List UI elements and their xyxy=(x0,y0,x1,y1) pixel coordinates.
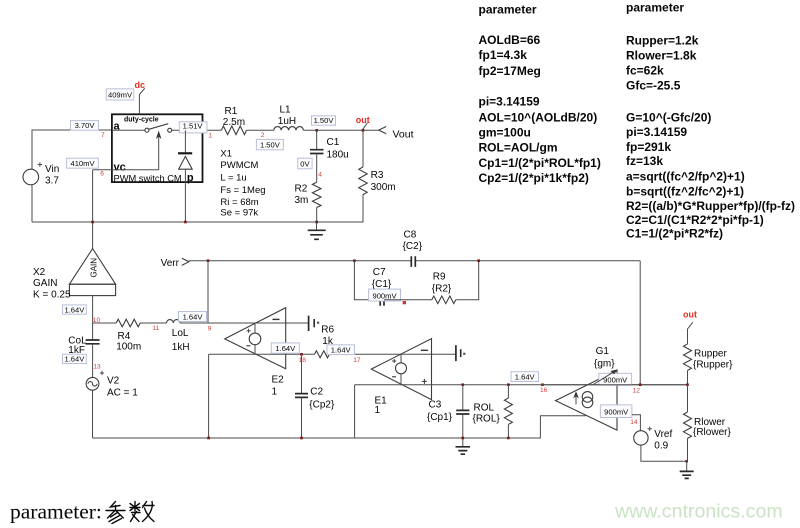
svg-text:AOLdB=66: AOLdB=66 xyxy=(479,33,541,47)
resistor ROL xyxy=(473,385,513,438)
capacitor C8 xyxy=(403,230,423,267)
ground below C3 xyxy=(456,438,471,454)
svg-text:fz=13k: fz=13k xyxy=(626,154,663,168)
svg-text:{Rupper}: {Rupper} xyxy=(693,360,733,371)
svg-text:G=10^(-Gfc/20): G=10^(-Gfc/20) xyxy=(626,111,711,125)
svg-text:pi=3.14159: pi=3.14159 xyxy=(479,95,540,109)
svg-text:Cp2=1/(2*pi*1k*fp2): Cp2=1/(2*pi*1k*fp2) xyxy=(479,171,589,185)
transconductance amp G1 xyxy=(556,346,618,430)
output pin Vout xyxy=(379,127,414,141)
svg-text:900mV: 900mV xyxy=(372,291,397,300)
svg-text:E2: E2 xyxy=(272,375,285,386)
wire node10 to R4 xyxy=(93,322,117,324)
svg-text:AC = 1: AC = 1 xyxy=(107,387,138,398)
svg-text:vc: vc xyxy=(114,161,126,173)
resistor R6 xyxy=(315,325,335,358)
switch duty-cycle xyxy=(112,124,172,170)
voltage label 900mV C7 xyxy=(369,289,401,301)
junction p rail xyxy=(184,221,187,224)
parameter column 1 xyxy=(479,3,601,186)
svg-text:R2: R2 xyxy=(295,183,308,194)
reference bar E2 xyxy=(309,316,320,331)
capacitor C7 xyxy=(372,267,392,306)
wire R6 to E1 xyxy=(329,353,456,355)
svg-text:R9: R9 xyxy=(433,272,446,283)
svg-text:3.7: 3.7 xyxy=(45,176,59,187)
svg-text:PWM switch CM: PWM switch CM xyxy=(114,173,182,183)
svg-text:1.51V: 1.51V xyxy=(183,122,204,131)
svg-text:{Rlower}: {Rlower} xyxy=(693,427,731,438)
svg-text:LoL: LoL xyxy=(172,328,189,339)
resistor R9 xyxy=(432,272,456,304)
svg-text:R3: R3 xyxy=(371,170,384,181)
svg-text:GAIN: GAIN xyxy=(90,258,99,278)
svg-text:G1: G1 xyxy=(596,346,610,357)
svg-text:1: 1 xyxy=(209,133,213,140)
svg-text:9: 9 xyxy=(208,325,212,332)
svg-text:Rlower: Rlower xyxy=(694,417,726,428)
svg-text:12: 12 xyxy=(633,387,641,394)
svg-text:parameter:: parameter: xyxy=(10,500,102,524)
svg-text:{R2}: {R2} xyxy=(432,284,452,295)
resistor Rupper xyxy=(684,329,734,385)
svg-text:C3: C3 xyxy=(429,400,442,411)
capacitor C1 xyxy=(310,130,349,182)
capacitor C3 xyxy=(427,385,469,438)
svg-text:C8: C8 xyxy=(404,230,417,241)
svg-text:parameter: parameter xyxy=(479,3,537,17)
svg-text:Cp1=1/(2*pi*ROL*fp1): Cp1=1/(2*pi*ROL*fp1) xyxy=(479,156,601,170)
wire dc xyxy=(138,94,140,114)
svg-text:C1: C1 xyxy=(327,137,340,148)
junction Vref ground xyxy=(685,460,688,463)
junction comp right xyxy=(477,259,480,262)
svg-text:Rlower=1.8k: Rlower=1.8k xyxy=(626,49,697,63)
svg-text:2: 2 xyxy=(261,132,265,139)
wire E1 output main line xyxy=(355,384,688,386)
svg-text:fp2=17Meg: fp2=17Meg xyxy=(479,64,541,78)
svg-text:pi=3.14159: pi=3.14159 xyxy=(626,125,687,139)
svg-text:3m: 3m xyxy=(295,195,309,206)
svg-text:4: 4 xyxy=(318,172,322,179)
capacitor C2 xyxy=(295,354,335,438)
voltage label 0V xyxy=(298,158,312,169)
wire L1 to Vout xyxy=(303,129,378,131)
svg-text:b=sqrt((fz^2/fc^2)+1): b=sqrt((fz^2/fc^2)+1) xyxy=(626,185,744,199)
svg-text:Vref: Vref xyxy=(654,429,672,440)
voltage label 3.70V xyxy=(71,121,99,131)
svg-text:{Cp1}: {Cp1} xyxy=(427,412,453,423)
svg-text:1.64V: 1.64V xyxy=(64,355,85,364)
wire vc xyxy=(93,169,112,171)
svg-text:Se = 97k: Se = 97k xyxy=(220,208,258,219)
svg-text:C2=C1/(C1*R2*2*pi*fp-1): C2=C1/(C1*R2*2*pi*fp-1) xyxy=(626,213,764,227)
wire R4 to LoL xyxy=(140,322,166,324)
svg-text:Vout: Vout xyxy=(393,128,414,140)
wire LoL to E2 input xyxy=(180,322,309,324)
wire main line over G1 xyxy=(541,384,688,386)
gm arrow xyxy=(593,370,617,385)
voltage label 1.64V node17 xyxy=(327,345,355,355)
voltage label 1.64V node9 xyxy=(179,312,207,322)
wire C7 to R9 xyxy=(384,299,432,301)
svg-text:ROL: ROL xyxy=(474,402,495,413)
voltage label 1.50V node2 xyxy=(256,139,283,149)
voltage label 410mV xyxy=(67,158,99,168)
svg-text:1.50V: 1.50V xyxy=(314,116,335,125)
voltage label 1.51V xyxy=(179,122,207,133)
svg-text:C2: C2 xyxy=(310,387,323,398)
svg-text:Fs = 1Meg: Fs = 1Meg xyxy=(220,185,265,196)
svg-text:L = 1u: L = 1u xyxy=(220,173,246,184)
wire Vref to ground junction xyxy=(641,445,687,461)
svg-text:17: 17 xyxy=(353,357,361,364)
svg-text:out: out xyxy=(683,309,697,319)
wire Vin top to rail xyxy=(32,130,112,169)
wire V2 to bottom rail xyxy=(92,390,94,438)
resistor R3 xyxy=(359,130,396,194)
capacitor CoL xyxy=(68,323,99,377)
svg-text:1.64V: 1.64V xyxy=(183,313,204,322)
svg-text:AOL=10^(AOLdB/20): AOL=10^(AOLdB/20) xyxy=(479,111,598,125)
svg-text:{ROL}: {ROL} xyxy=(473,413,501,424)
svg-text:{Cp2}: {Cp2} xyxy=(309,400,335,411)
svg-text:1.64V: 1.64V xyxy=(515,373,536,382)
svg-text:R1: R1 xyxy=(225,106,238,117)
svg-text:{C1}: {C1} xyxy=(372,279,392,290)
voltage source Vin xyxy=(23,162,59,186)
svg-text:p: p xyxy=(187,172,194,184)
voltage label 1.64V node16 xyxy=(511,372,539,382)
junction vc rail xyxy=(91,221,94,224)
junction Rupper Rlower xyxy=(686,383,689,386)
svg-text:R4: R4 xyxy=(118,331,131,342)
svg-text:C7: C7 xyxy=(373,267,386,278)
svg-text:fp1=4.3k: fp1=4.3k xyxy=(479,48,528,62)
svg-text:1.64V: 1.64V xyxy=(64,305,85,314)
junction C3 xyxy=(462,383,465,386)
svg-text:www.cntronics.com: www.cntronics.com xyxy=(614,501,783,523)
svg-text:11: 11 xyxy=(152,325,159,332)
wire Verr line down to node12 xyxy=(639,261,641,385)
svg-text:fp=291k: fp=291k xyxy=(626,140,671,154)
svg-text:1.50V: 1.50V xyxy=(260,140,281,149)
resistor Rlower xyxy=(684,385,732,462)
ground below rail xyxy=(308,222,326,239)
svg-text:900mV: 900mV xyxy=(604,408,629,417)
wire E2 output line xyxy=(209,353,315,355)
pin dc tick xyxy=(139,88,144,94)
svg-text:0.9: 0.9 xyxy=(654,441,668,452)
ground rail top half xyxy=(32,195,363,223)
junction Verr to node9 xyxy=(207,259,210,262)
svg-text:1uH: 1uH xyxy=(278,116,296,127)
wire R9 to corner up xyxy=(456,261,479,300)
voltage label 409mV xyxy=(106,89,134,100)
voltage label 1.50V C1 xyxy=(312,116,336,125)
svg-text:PWMCM: PWMCM xyxy=(220,160,258,171)
svg-text:2.5m: 2.5m xyxy=(223,117,245,128)
rail junctions xyxy=(207,437,210,440)
svg-text:X2: X2 xyxy=(33,267,46,278)
svg-text:0V: 0V xyxy=(300,159,310,168)
junction comp left xyxy=(353,259,356,262)
svg-text:L1: L1 xyxy=(280,105,292,116)
svg-text:ROL=AOL/gm: ROL=AOL/gm xyxy=(479,141,558,155)
svg-text:1.64V: 1.64V xyxy=(331,346,352,355)
caption chinese 参数 xyxy=(106,502,154,524)
svg-text:1: 1 xyxy=(375,405,381,416)
wire node 1 xyxy=(172,129,222,131)
junction diode top xyxy=(184,129,187,132)
svg-text:18: 18 xyxy=(299,357,307,364)
svg-text:Rupper: Rupper xyxy=(694,349,727,360)
svg-text:X1: X1 xyxy=(220,149,232,160)
reference bar E1 xyxy=(456,345,466,361)
input arrow Verr xyxy=(182,258,189,265)
svg-text:7: 7 xyxy=(101,132,105,139)
gain block X2 xyxy=(33,249,116,323)
wire vc vertical to gain xyxy=(92,170,94,249)
svg-text:Vin: Vin xyxy=(45,164,59,175)
junction R3 top xyxy=(362,129,365,132)
svg-text:900mV: 900mV xyxy=(603,376,628,385)
svg-text:GAIN: GAIN xyxy=(33,278,57,289)
pin out tick right xyxy=(688,322,693,329)
svg-text:C1=1/(2*pi*R2*fz): C1=1/(2*pi*R2*fz) xyxy=(626,227,723,241)
wire comp left branch xyxy=(354,261,380,300)
junction C1 top xyxy=(315,129,318,132)
junction ROL xyxy=(507,383,510,386)
wire R1 to L1 xyxy=(247,129,274,131)
pin out tick xyxy=(363,123,368,130)
ground rail bottom xyxy=(93,416,586,438)
svg-text:100m: 100m xyxy=(116,342,141,353)
voltage source V2 xyxy=(86,371,138,398)
wire Vin bottom xyxy=(31,185,33,222)
inductor LoL xyxy=(167,320,190,353)
svg-text:dc: dc xyxy=(135,80,146,90)
op-amp E2 xyxy=(225,308,286,398)
svg-text:R2=((a/b)*G*Rupper*fp)/(fp-fz): R2=((a/b)*G*Rupper*fp)/(fp-fz) xyxy=(626,199,795,213)
inductor L1 xyxy=(274,105,304,131)
svg-text:{C2}: {C2} xyxy=(403,241,423,252)
svg-text:409mV: 409mV xyxy=(108,90,133,99)
svg-text:a=sqrt((fc^2/fp^2)+1): a=sqrt((fc^2/fp^2)+1) xyxy=(626,170,745,184)
svg-text:1.64V: 1.64V xyxy=(275,344,296,353)
junction node16 xyxy=(541,383,544,386)
svg-text:V2: V2 xyxy=(107,376,120,387)
svg-text:{gm}: {gm} xyxy=(594,359,615,370)
junction C2 top xyxy=(300,353,303,356)
svg-text:1kH: 1kH xyxy=(172,342,190,353)
svg-text:6: 6 xyxy=(100,171,104,178)
wire E2 minus to ground rail xyxy=(208,354,210,438)
voltage label 1.64V node10 xyxy=(63,305,87,314)
svg-text:out: out xyxy=(356,115,370,125)
svg-text:parameter: parameter xyxy=(626,1,684,15)
wire E1 plus to rail xyxy=(354,385,356,438)
voltage source Vref xyxy=(634,427,673,452)
svg-text:1: 1 xyxy=(272,387,278,398)
resistor R1 xyxy=(221,106,246,135)
X1 parameter text xyxy=(220,149,265,219)
voltage label 900mV G1 bottom xyxy=(600,405,632,418)
junction R2 rail xyxy=(315,221,318,224)
svg-text:fc=62k: fc=62k xyxy=(626,64,664,78)
svg-text:Ri = 68m: Ri = 68m xyxy=(220,197,258,208)
svg-text:14: 14 xyxy=(630,419,638,426)
voltage label 1.64V node13 xyxy=(63,354,87,363)
junction node12 xyxy=(639,383,642,386)
voltage label 900mV G1 top xyxy=(599,373,632,385)
svg-text:R6: R6 xyxy=(321,325,334,336)
svg-text:Rupper=1.2k: Rupper=1.2k xyxy=(626,34,699,48)
wire Verr down to node9 xyxy=(207,261,209,323)
svg-text:300m: 300m xyxy=(371,182,396,193)
svg-text:16: 16 xyxy=(540,387,548,394)
PWM switch CM box X1 xyxy=(112,114,203,182)
wire Verr line xyxy=(189,260,411,262)
parameter column 2 xyxy=(626,1,795,241)
svg-text:180u: 180u xyxy=(327,150,349,161)
svg-text:gm=100u: gm=100u xyxy=(479,126,531,140)
voltage label 1.64V node18 xyxy=(271,343,299,353)
op-amp E1 xyxy=(371,339,431,416)
svg-text:3.70V: 3.70V xyxy=(75,121,96,130)
node 19 pin xyxy=(403,301,406,304)
svg-text:410mV: 410mV xyxy=(70,159,95,168)
svg-text:Gfc=-25.5: Gfc=-25.5 xyxy=(626,79,681,93)
resistor R4 xyxy=(116,319,141,352)
svg-text:Verr: Verr xyxy=(161,258,180,269)
wire node14 to Vref xyxy=(632,415,641,431)
resistor R2 xyxy=(295,182,322,222)
diode in PWM box xyxy=(178,130,192,222)
svg-text:13: 13 xyxy=(93,363,101,370)
svg-text:duty-cycle: duty-cycle xyxy=(124,117,159,124)
ground below Vref xyxy=(680,461,694,478)
svg-text:K = 0.25: K = 0.25 xyxy=(33,290,71,301)
